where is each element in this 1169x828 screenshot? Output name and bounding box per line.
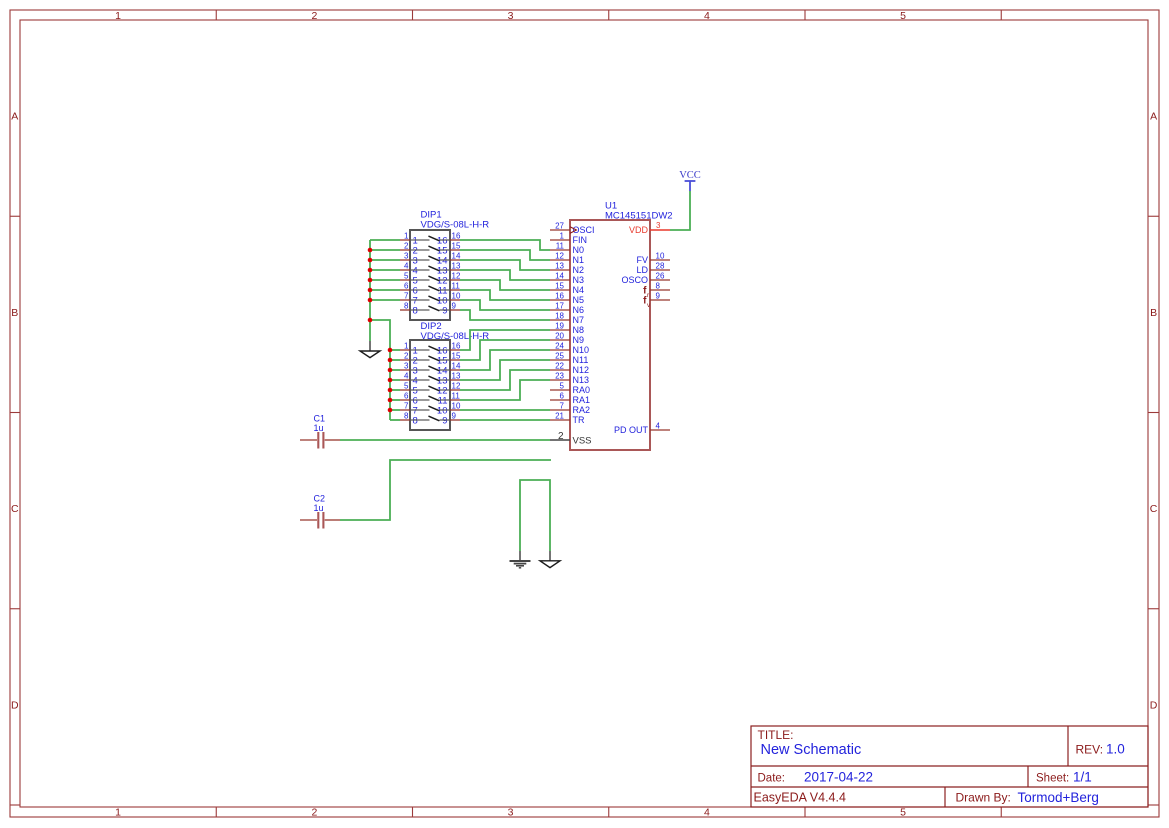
U1 pin 16 N5 [550, 292, 584, 306]
svg-text:5: 5 [900, 10, 906, 22]
switch DIP1 pole 6-11 [400, 282, 460, 297]
switch DIP1 pole 3-14 [400, 252, 461, 267]
wire DIP2 pin 4 branch [390, 379, 400, 381]
wire DIP1 pin 1 branch [370, 239, 400, 241]
svg-text:22: 22 [555, 362, 564, 371]
U1 pin 14 N3 [550, 272, 584, 286]
svg-text:VDD: VDD [629, 225, 649, 235]
svg-text:A: A [11, 111, 18, 123]
svg-text:C: C [11, 503, 19, 515]
U1 pin 13 N2 [550, 262, 584, 276]
svg-text:1u: 1u [314, 503, 324, 513]
wire DIP1 pin 6 branch [370, 289, 400, 291]
svg-text:25: 25 [555, 352, 564, 361]
U1 pin 26 OSCO [621, 272, 670, 286]
svg-text:5: 5 [900, 806, 906, 818]
svg-text:N5: N5 [573, 295, 585, 305]
svg-text:N1: N1 [573, 255, 585, 265]
U1 pin 8 f_r [643, 282, 670, 300]
U1 pin 22 N12 [550, 362, 589, 376]
svg-text:4: 4 [404, 372, 409, 381]
junction at 390,410 [388, 408, 393, 413]
wire DIP2 pin 13 to U1 N11 [460, 360, 550, 380]
svg-text:VDG/S-08L-H-R: VDG/S-08L-H-R [421, 331, 490, 342]
svg-text:8: 8 [413, 305, 418, 316]
svg-text:3: 3 [404, 252, 409, 261]
svg-text:3: 3 [508, 806, 514, 818]
svg-text:4: 4 [656, 422, 661, 431]
svg-text:8: 8 [413, 415, 418, 426]
switch DIP2 VDG/S-08L-H-R body [410, 321, 489, 430]
svg-text:TITLE:: TITLE: [758, 728, 794, 742]
svg-text:1.0: 1.0 [1106, 742, 1125, 757]
svg-text:15: 15 [452, 352, 461, 361]
svg-text:N0: N0 [573, 245, 585, 255]
U1 pin 20 N9 [550, 332, 584, 346]
svg-text:2: 2 [558, 431, 564, 442]
junction at 390,400 [388, 398, 393, 403]
svg-text:13: 13 [452, 262, 461, 271]
capacitor C2 1u [300, 494, 340, 529]
svg-text:4: 4 [404, 262, 409, 271]
U1 pin 18 N7 [550, 312, 584, 326]
switch DIP1 VDG/S-08L-H-R body [410, 210, 489, 321]
wire DIP1 pin 15 to U1 N1 [460, 250, 550, 260]
svg-text:FIN: FIN [573, 235, 588, 245]
svg-text:5: 5 [404, 272, 409, 281]
switch DIP1 pole 2-15 [400, 242, 461, 257]
U1 pin 10 FV [636, 252, 670, 266]
svg-text:Tormod+Berg: Tormod+Berg [1018, 790, 1099, 805]
svg-text:1: 1 [560, 232, 565, 241]
wire DIP2 pin 15 to U1 N9 [460, 340, 550, 360]
svg-text:N9: N9 [573, 335, 585, 345]
power flag VCC [679, 170, 701, 191]
svg-text:15: 15 [452, 242, 461, 251]
capacitor C1 1u [300, 414, 340, 449]
wire DIP1 pin 11 to U1 N5 [460, 290, 550, 300]
svg-text:1: 1 [115, 806, 121, 818]
junction at 370,320 [368, 318, 373, 323]
wire DIP1 pin 7 branch [370, 299, 400, 301]
svg-text:Date:: Date: [758, 773, 786, 785]
svg-text:24: 24 [555, 342, 564, 351]
wire DIP2 pin 11 to U1 N13 [460, 380, 550, 400]
switch DIP2 pole 8-9 [400, 412, 460, 427]
ground earth symbol [510, 551, 531, 568]
svg-text:6: 6 [404, 392, 409, 401]
U1 pin 5 RA0 [550, 382, 590, 396]
svg-text:RA1: RA1 [573, 395, 591, 405]
svg-text:New Schematic: New Schematic [761, 742, 862, 758]
wire DIP1 pin 3 branch [370, 259, 400, 261]
svg-text:N8: N8 [573, 325, 585, 335]
svg-text:16: 16 [555, 292, 564, 301]
junction at 370,300 [368, 298, 373, 303]
switch DIP2 pole 5-12 [400, 382, 461, 397]
wire DIP1 pin 14 to U1 N2 [460, 260, 550, 270]
svg-text:12: 12 [452, 382, 461, 391]
svg-text:4: 4 [704, 10, 710, 22]
svg-text:N2: N2 [573, 265, 585, 275]
U1 pin 27 OSCI [550, 222, 595, 236]
svg-text:N13: N13 [573, 375, 590, 385]
junction at 370,260 [368, 258, 373, 263]
svg-text:1: 1 [404, 342, 409, 351]
svg-text:D: D [11, 700, 19, 712]
wire VDD to VCC [670, 191, 690, 230]
switch DIP1 pole 5-12 [400, 272, 461, 287]
switch DIP1 pole 7-10 [400, 292, 461, 307]
U1 pin 2 VSS [550, 431, 592, 447]
wire DIP1 pin 2 branch [370, 249, 400, 251]
svg-text:21: 21 [555, 412, 564, 421]
switch DIP1 pole 8-9 [400, 302, 460, 317]
svg-text:9: 9 [442, 305, 447, 316]
svg-text:N7: N7 [573, 315, 585, 325]
svg-text:26: 26 [656, 272, 665, 281]
svg-text:C: C [1150, 503, 1158, 515]
svg-text:MC145151DW2: MC145151DW2 [605, 211, 673, 222]
svg-text:11: 11 [452, 282, 461, 291]
svg-text:N11: N11 [573, 355, 589, 365]
wire DIP1 pin 9 to U1 N7 [460, 310, 550, 320]
svg-text:3: 3 [404, 362, 409, 371]
svg-text:27: 27 [555, 222, 564, 231]
svg-text:OSCO: OSCO [621, 275, 648, 285]
wire DIP2 pin 10 to U1 RA2 [460, 409, 550, 411]
svg-text:B: B [1150, 307, 1157, 319]
junction at 370,290 [368, 288, 373, 293]
wire DIP1 pin 16 to U1 N0 [460, 240, 550, 250]
svg-text:N3: N3 [573, 275, 585, 285]
U1 pin 28 LD [636, 262, 670, 276]
switch DIP2 pole 3-14 [400, 362, 461, 377]
wire DIP2 pin 7 branch [390, 409, 400, 411]
svg-text:7: 7 [404, 292, 409, 301]
U1 pin 21 TR [550, 412, 585, 426]
svg-text:2: 2 [311, 806, 317, 818]
svg-text:10: 10 [656, 252, 665, 261]
svg-text:11: 11 [556, 242, 565, 251]
svg-text:RA0: RA0 [573, 385, 591, 395]
switch DIP2 pole 7-10 [400, 402, 461, 417]
wire DIP2 pin 3 branch [390, 369, 400, 371]
svg-text:B: B [11, 307, 18, 319]
U1 pin 19 N8 [550, 322, 584, 336]
svg-text:9: 9 [452, 412, 457, 421]
U1 pin 11 N0 [550, 242, 584, 256]
svg-text:20: 20 [555, 332, 564, 341]
svg-text:2: 2 [404, 242, 409, 251]
U1 pin 17 N6 [550, 302, 584, 316]
junction at 390,380 [388, 378, 393, 383]
svg-text:A: A [1150, 111, 1157, 123]
svg-text:7: 7 [560, 402, 565, 411]
svg-text:28: 28 [656, 262, 665, 271]
wire DIP1 pin 10 to U1 N6 [460, 300, 550, 310]
switch DIP2 pole 6-11 [400, 392, 460, 407]
svg-text:N12: N12 [573, 365, 590, 375]
svg-text:RA2: RA2 [573, 405, 591, 415]
svg-text:9: 9 [656, 292, 661, 301]
svg-text:VDG/S-08L-H-R: VDG/S-08L-H-R [421, 220, 490, 231]
switch DIP2 pole 4-13 [400, 372, 461, 387]
wire C1 to VSS [340, 439, 550, 441]
svg-text:9: 9 [452, 302, 457, 311]
wire DIP1 pin 5 branch [370, 279, 400, 281]
svg-text:1u: 1u [314, 423, 324, 433]
svg-text:13: 13 [555, 262, 564, 271]
svg-text:D: D [1150, 700, 1158, 712]
wire DIP2 pin 1 branch [390, 349, 400, 351]
U1 pin 25 N11 [550, 352, 588, 366]
svg-text:18: 18 [555, 312, 564, 321]
svg-text:9: 9 [442, 415, 447, 426]
svg-text:8: 8 [404, 412, 409, 421]
junction at 390,370 [388, 368, 393, 373]
svg-text:PD OUT: PD OUT [614, 425, 649, 435]
junction at 370,250 [368, 248, 373, 253]
svg-text:8: 8 [656, 282, 661, 291]
svg-text:1/1: 1/1 [1073, 770, 1092, 785]
svg-text:FV: FV [636, 255, 648, 265]
switch DIP2 pole 2-15 [400, 352, 461, 367]
svg-text:C2: C2 [314, 494, 326, 504]
svg-text:11: 11 [452, 392, 461, 401]
svg-text:10: 10 [452, 402, 461, 411]
ground triangle symbol [540, 551, 560, 568]
svg-text:7: 7 [404, 402, 409, 411]
wire C2 riser [340, 460, 551, 520]
svg-text:1: 1 [404, 232, 409, 241]
wire DIP2 pin 6 branch [390, 399, 400, 401]
U1 pin 4 PD OUT [614, 422, 670, 436]
IC U1 MC145151DW2 [570, 201, 673, 451]
svg-text:VCC: VCC [679, 170, 701, 181]
svg-text:3: 3 [508, 10, 514, 22]
svg-text:6: 6 [404, 282, 409, 291]
svg-text:8: 8 [404, 302, 409, 311]
junction at 390,390 [388, 388, 393, 393]
ground near DIP2 (triangle) [360, 341, 380, 358]
svg-text:TR: TR [573, 415, 585, 425]
svg-text:2017-04-22: 2017-04-22 [804, 770, 873, 785]
wire bus vertical left of DIP1 [369, 240, 371, 341]
svg-text:14: 14 [555, 272, 564, 281]
switch DIP1 pole 1-16 [400, 232, 461, 247]
title block [751, 726, 1148, 807]
svg-text:14: 14 [452, 362, 461, 371]
wire DIP2 pin 5 branch [390, 389, 400, 391]
wire bus to DIP2 [370, 320, 390, 420]
junction at 370,280 [368, 278, 373, 283]
wire DIP1 pin 12 to U1 N4 [460, 280, 550, 290]
svg-text:17: 17 [555, 302, 564, 311]
svg-text:REV:: REV: [1076, 743, 1104, 757]
svg-text:N10: N10 [573, 345, 590, 355]
svg-text:VSS: VSS [573, 436, 592, 447]
svg-text:C1: C1 [314, 414, 326, 424]
svg-text:19: 19 [555, 322, 564, 331]
wire DIP2 pin 9 to U1 TR [460, 419, 550, 421]
svg-text:3: 3 [656, 221, 661, 230]
svg-text:15: 15 [555, 282, 564, 291]
U1 pin 23 N13 [550, 372, 589, 386]
wire DIP1 pin 4 branch [370, 269, 400, 271]
U1 pin 24 N10 [550, 342, 589, 356]
svg-text:12: 12 [452, 272, 461, 281]
U1 pin 7 RA2 [550, 402, 590, 416]
junction at 390,360 [388, 358, 393, 363]
svg-text:16: 16 [452, 232, 461, 241]
svg-text:4: 4 [704, 806, 710, 818]
svg-text:Drawn By:: Drawn By: [956, 791, 1011, 805]
U1 pin 3 VDD [629, 221, 670, 235]
svg-text:EasyEDA V4.4.4: EasyEDA V4.4.4 [754, 791, 846, 805]
U1 pin 9 f_v [643, 292, 670, 310]
svg-text:LD: LD [636, 265, 648, 275]
svg-text:2: 2 [404, 352, 409, 361]
wire DIP1 pin 13 to U1 N3 [460, 270, 550, 280]
U1 pin 1 FIN [550, 232, 587, 246]
svg-text:14: 14 [452, 252, 461, 261]
svg-text:5: 5 [560, 382, 565, 391]
svg-text:12: 12 [555, 252, 564, 261]
wire DIP2 pin 14 to U1 N10 [460, 350, 550, 370]
wire DIP2 pin 16 to U1 N8 [460, 330, 550, 350]
svg-text:10: 10 [452, 292, 461, 301]
switch DIP2 pole 1-16 [400, 342, 461, 357]
U1 pin 12 N1 [550, 252, 584, 266]
wire DIP2 pin 8 branch [390, 419, 400, 421]
wire ground U [520, 480, 550, 551]
svg-text:N4: N4 [573, 285, 585, 295]
wire DIP2 pin 12 to U1 N12 [460, 370, 550, 390]
U1 pin 15 N4 [550, 282, 584, 296]
svg-text:5: 5 [404, 382, 409, 391]
svg-text:13: 13 [452, 372, 461, 381]
junction at 390,350 [388, 348, 393, 353]
U1 pin 6 RA1 [550, 392, 590, 406]
junction at 370,270 [368, 268, 373, 273]
svg-text:1: 1 [115, 10, 121, 22]
svg-text:6: 6 [560, 392, 565, 401]
svg-text:23: 23 [555, 372, 564, 381]
svg-text:Sheet:: Sheet: [1036, 773, 1069, 785]
svg-text:2: 2 [311, 10, 317, 22]
svg-text:N6: N6 [573, 305, 585, 315]
wire DIP2 pin 2 branch [390, 359, 400, 361]
svg-text:16: 16 [452, 342, 461, 351]
switch DIP1 pole 4-13 [400, 262, 461, 277]
